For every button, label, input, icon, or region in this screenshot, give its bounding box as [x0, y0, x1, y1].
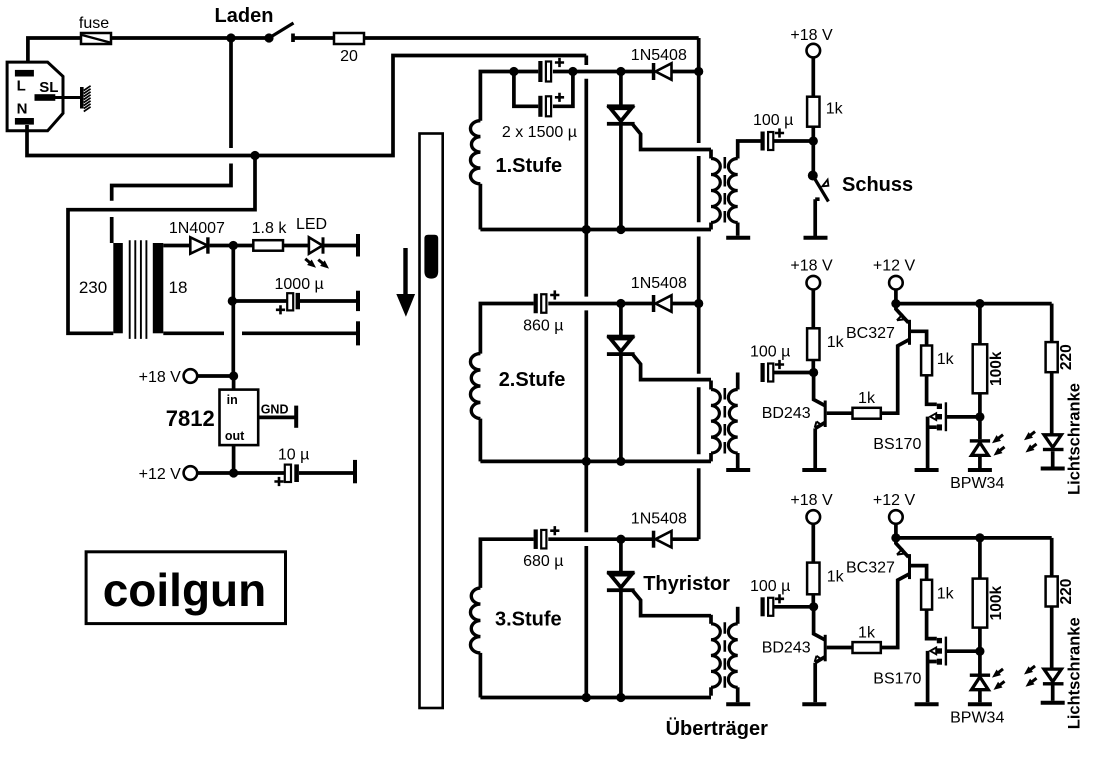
wire stage3 bottom rail [480, 696, 711, 700]
svg-text:Lichtschranke: Lichtschranke [1066, 383, 1084, 495]
wire secondary top to diode [163, 244, 191, 248]
wire 1000u node down to +18V node [231, 301, 235, 376]
wire +12V terminal to node [197, 471, 234, 475]
svg-text:+12 V: +12 V [873, 492, 916, 509]
ground BD243 stage2 [802, 468, 826, 472]
label 1k schuss [826, 101, 844, 118]
transformer TR2 primary [711, 381, 720, 462]
wire stage1 thyristor anode [619, 72, 623, 105]
capacitor C 860u stage2 [534, 294, 547, 314]
label 1N5408 stage2 [631, 275, 687, 292]
plus sign C3b [555, 93, 564, 102]
label 10 u [278, 447, 309, 464]
transformer T1 core [130, 240, 147, 339]
label BC327 stage3 [846, 559, 895, 576]
ground stage2 transformer [726, 468, 750, 472]
svg-text:BC327: BC327 [846, 325, 895, 342]
svg-text:N: N [17, 100, 28, 117]
terminal bar secondary bottom [356, 321, 360, 345]
wire node down to 1000u row [231, 246, 235, 302]
label Thyristor [643, 573, 730, 595]
wire stage1 diode to bus [672, 70, 699, 74]
label +12 V stage3 [873, 492, 916, 509]
svg-text:Lichtschranke: Lichtschranke [1066, 617, 1084, 729]
wire fuse to Laden switch [111, 36, 269, 40]
svg-text:100 µ: 100 µ [750, 578, 790, 595]
wire stage2 thyristor anode [619, 304, 623, 339]
svg-text:BC327: BC327 [846, 559, 895, 576]
label 100u stage3 [750, 578, 790, 595]
plus sign 100u stage3 [775, 594, 784, 603]
terminal bar LED row [356, 234, 360, 257]
label BPW34 stage2 [950, 475, 1004, 492]
ground stage3 transformer [726, 702, 750, 706]
label BC327 stage2 [846, 325, 895, 342]
capacitor 100u stage2 [761, 363, 774, 382]
wire stage3 thyristor cathode [619, 590, 623, 697]
label 100u stage2 [750, 344, 790, 361]
transformer TR1 primary [711, 150, 720, 230]
label Lichtschranke stage2 [1066, 383, 1084, 495]
svg-text:2 x 1500 µ: 2 x 1500 µ [502, 124, 577, 141]
wire stage2 bottom rail [480, 460, 711, 464]
wire node to resistor 1.8k [233, 244, 253, 248]
label 1000 u [275, 276, 324, 293]
terminal +12V stage3 [889, 510, 903, 524]
wire rail to 100k stage2 [978, 304, 982, 345]
label 20 [340, 48, 358, 65]
resistor 1k base stage2 [853, 408, 881, 419]
node stage1 thyristor top [616, 67, 625, 76]
label 2.Stufe [499, 369, 566, 391]
svg-text:1k: 1k [858, 390, 876, 407]
coilgun title box [86, 552, 285, 624]
motion arrow [396, 248, 415, 317]
label Ubertrager [666, 717, 768, 740]
wire base to 1k stage2 [827, 411, 853, 415]
ground stage1 transformer [726, 236, 750, 240]
label 1k BC327 stage3 [937, 585, 955, 602]
svg-text:1N4007: 1N4007 [169, 220, 225, 237]
wire node to capacitor 10u [234, 471, 285, 475]
transformer TR2 core [723, 388, 726, 455]
wire node to switch [811, 141, 815, 172]
resistor 20 [334, 33, 364, 44]
svg-text:100k: 100k [988, 351, 1005, 386]
svg-text:230: 230 [79, 278, 107, 297]
wire stage2 rail cap to diode [548, 302, 652, 306]
svg-text:BD243: BD243 [762, 405, 811, 422]
wire stage1 thyristor cathode [619, 124, 623, 230]
label N [17, 100, 28, 117]
terminal bar 10u row [353, 460, 357, 483]
node gate divider stage3 [975, 647, 984, 656]
label +18 V schuss [790, 27, 833, 44]
transformer TR1 core [723, 157, 726, 224]
node +12V rail stage3 [891, 533, 900, 542]
transistor BC327 stage2 [896, 304, 927, 346]
label BPW34 stage3 [950, 709, 1004, 726]
wire base to 1k stage3 [827, 646, 853, 650]
wire secondary bottom to terminal [163, 331, 357, 335]
svg-text:100k: 100k [988, 585, 1005, 620]
label +12 V left [139, 466, 182, 483]
resistor 1k BC327 stage2 [921, 346, 932, 376]
ground BD243 stage3 [802, 702, 826, 706]
terminal bar 1000u row [356, 291, 360, 311]
label 1k collector stage3 [827, 568, 845, 585]
label 100u stage1 [753, 112, 793, 129]
label 18 [169, 278, 188, 297]
wire 100k to gate node stage3 [978, 628, 982, 652]
label 220 stage2 [1058, 344, 1075, 370]
ground BS170 stage3 [915, 702, 939, 706]
label 3.Stufe [495, 609, 562, 631]
light arrows LED stage2 [1022, 429, 1039, 456]
capacitor C3b 1500u [538, 96, 551, 117]
wire Laden node to transformer primary top [112, 38, 231, 243]
wire stage1 loop left bottom [479, 184, 483, 230]
wire stage2 loop left top [480, 304, 533, 354]
svg-text:+18 V: +18 V [790, 27, 833, 44]
node stage2 bottom negbus [582, 457, 591, 466]
wire mains N from plug [27, 56, 586, 156]
mains plug outline [7, 62, 63, 131]
label fuse [79, 15, 109, 32]
LED D2 emission arrows [303, 256, 331, 271]
wire stage2 thyristor cathode [619, 354, 623, 461]
wire resistor 20 to charge bus [364, 36, 699, 40]
wire stage2 diode to bus [672, 302, 699, 306]
svg-text:10 µ: 10 µ [278, 447, 309, 464]
node mains junction at Laden [226, 33, 235, 42]
wire stage3 diode to bus [672, 537, 699, 541]
node stage2 thyristor top [616, 299, 625, 308]
label 1.8 k [252, 220, 288, 237]
ground BS170 stage2 [915, 468, 939, 472]
regulator U1 7812 box [220, 390, 259, 446]
label LED [296, 216, 327, 233]
wire +18V to R1k stage3 [811, 524, 815, 563]
svg-text:fuse: fuse [79, 15, 109, 32]
node stage1 bus [694, 67, 703, 76]
wire +12V rail stage3 [896, 536, 1052, 540]
plug pin L [15, 70, 34, 77]
wire terminal to R 1k schuss [811, 57, 815, 97]
svg-text:3.Stufe: 3.Stufe [495, 609, 562, 631]
svg-text:SL: SL [39, 79, 58, 96]
label 230 [79, 278, 107, 297]
earth symbol [80, 86, 91, 112]
label 1k base stage3 [858, 624, 876, 641]
label 680 stage3 [523, 553, 563, 570]
resistor 100k stage2 [973, 344, 988, 393]
label 1N5408 stage1 [631, 47, 687, 64]
svg-text:1N5408: 1N5408 [631, 47, 687, 64]
diode 1N5408 stage3 [652, 531, 672, 548]
plus sign C1 [276, 305, 285, 314]
thyristor stage2 [607, 335, 635, 356]
wire capacitor 10u to terminal [299, 471, 355, 475]
transformer TR3 primary [711, 615, 720, 696]
label L [17, 78, 26, 95]
node stage2 bus [694, 299, 703, 308]
wire mains L from plug to fuse [28, 38, 81, 70]
wire diode to node [210, 244, 234, 248]
resistor 1k BC327 stage3 [921, 580, 932, 610]
label 1.Stufe [496, 155, 563, 177]
wire stage3 gate to pulse transformer [632, 590, 711, 616]
switch S2 Schuss [808, 171, 829, 237]
label 1k BC327 stage2 [937, 351, 955, 368]
wire 1.8k to LED [283, 244, 310, 248]
wire stage1 second cap branch [514, 72, 538, 107]
light arrows LED stage3 [1022, 663, 1039, 690]
svg-text:BPW34: BPW34 [950, 475, 1004, 492]
label BS170 stage3 [873, 670, 921, 687]
node stage1 bottom thyristor [616, 225, 625, 234]
svg-text:in: in [227, 393, 238, 407]
svg-text:+18 V: +18 V [790, 492, 833, 509]
LED lichtschranke stage2 [1043, 435, 1064, 467]
node 100k rail stage2 [975, 299, 984, 308]
thyristor stage3 [607, 571, 635, 592]
wire stage1 loop left top [480, 72, 538, 121]
diode 1N5408 stage2 [652, 295, 672, 312]
node stage3 bottom negbus [582, 693, 591, 702]
coil L1 stage1 [470, 121, 480, 184]
svg-text:220: 220 [1058, 579, 1075, 605]
svg-text:1.8 k: 1.8 k [252, 220, 288, 237]
plus sign cap stage3 [550, 526, 559, 535]
wire 220 to LED stage2 [1050, 372, 1054, 434]
wire 220 to LED stage3 [1050, 607, 1054, 669]
photodiode BPW34 stage2 [970, 417, 990, 468]
svg-text:1.Stufe: 1.Stufe [496, 155, 563, 177]
node regulator input [229, 371, 238, 380]
plus sign C2 [274, 477, 283, 486]
svg-text:1k: 1k [937, 585, 955, 602]
LED lichtschranke stage3 [1043, 669, 1064, 701]
label +18 V left [139, 369, 182, 386]
transistor BS170 stage3 [927, 610, 948, 703]
wire node to regulator [232, 376, 236, 390]
svg-text:Laden: Laden [215, 5, 274, 27]
node 100u stage3 [809, 602, 818, 611]
resistor R1 1k schuss [807, 97, 819, 127]
resistor 220 stage3 [1046, 576, 1058, 606]
wire stage2 gate to pulse transformer [632, 354, 711, 380]
label +12 V stage2 [873, 258, 916, 275]
wire charge bus x697 [697, 38, 701, 539]
label BD243 stage3 [762, 639, 811, 656]
label 1N4007 [169, 220, 225, 237]
wire R1 to node [811, 127, 815, 141]
transformer T1 secondary winding bar [153, 243, 164, 333]
wire node to capacitor 1000u [232, 299, 287, 303]
svg-text:18: 18 [169, 278, 188, 297]
capacitor 100u stage3 [761, 597, 774, 616]
transformer TR1 secondary [728, 141, 760, 236]
label 1N5408 stage3 [631, 511, 687, 528]
svg-text:860 µ: 860 µ [523, 318, 563, 335]
resistor 1k base stage3 [853, 642, 881, 653]
node N junction [250, 151, 259, 160]
capacitor C 680u stage3 [534, 529, 547, 549]
svg-text:1k: 1k [826, 101, 844, 118]
svg-text:1k: 1k [937, 351, 955, 368]
resistor 1k collector stage3 [807, 563, 819, 595]
diode D1 1N4007 [190, 237, 209, 253]
capacitor C3a 1500u [538, 61, 551, 82]
svg-text:BPW34: BPW34 [950, 709, 1004, 726]
fuse F1 [81, 33, 111, 44]
node stage1 cap branch A [509, 67, 518, 76]
node rectifier output [229, 241, 238, 250]
node gate divider stage2 [975, 412, 984, 421]
svg-text:GND: GND [261, 403, 289, 417]
svg-text:2.Stufe: 2.Stufe [499, 369, 566, 391]
barrel tube [420, 134, 443, 709]
wire stage1 rail caps to diode [553, 70, 653, 74]
ground LED stage2 [1041, 467, 1065, 471]
wire 100k to gate node stage2 [978, 393, 982, 417]
coil L3 stage3 [470, 588, 480, 653]
wire switch to resistor 20 [293, 36, 334, 40]
svg-text:1k: 1k [827, 334, 845, 351]
wire negative bus x586 [584, 56, 588, 698]
wire stage3 thyristor anode [619, 539, 623, 574]
node +12V rail stage2 [891, 299, 900, 308]
ground BPW34 stage2 [968, 468, 992, 472]
wire stage1 bottom rail [480, 228, 711, 232]
svg-text:220: 220 [1058, 344, 1075, 370]
wire LED to terminal [325, 244, 358, 248]
capacitor C2 10u [285, 464, 299, 482]
svg-text:+18 V: +18 V [790, 258, 833, 275]
plus sign C4 [775, 128, 784, 137]
terminal +12V stage2 [889, 276, 903, 290]
node stage1 cap branch B [568, 67, 577, 76]
label +18 V stage2 [790, 258, 833, 275]
node stage3 bottom thyristor [616, 693, 625, 702]
svg-text:680 µ: 680 µ [523, 553, 563, 570]
wire +12V terminal to rail stage3 [894, 524, 898, 538]
label 7812 [166, 406, 215, 431]
resistor 1.8k [253, 240, 283, 251]
resistor 1k collector stage2 [807, 328, 819, 360]
label 220 stage3 [1058, 579, 1075, 605]
terminal +12V left [184, 466, 198, 480]
svg-text:1k: 1k [827, 568, 845, 585]
wire stage2 loop left bottom [479, 419, 483, 462]
capacitor C1 1000u [287, 293, 300, 311]
svg-text:7812: 7812 [166, 406, 215, 431]
node 100u stage2 [809, 368, 818, 377]
label out [225, 429, 245, 443]
svg-text:+12 V: +12 V [139, 466, 182, 483]
label 1k base stage2 [858, 390, 876, 407]
label BS170 stage2 [873, 436, 921, 453]
svg-text:Thyristor: Thyristor [643, 573, 730, 595]
label Schuss [842, 174, 913, 196]
wire SL to earth [55, 96, 81, 99]
wire rail to 220 stage2 [1050, 304, 1054, 343]
wire C4 to schuss node [774, 139, 813, 143]
light arrows BPW34 stage2 [990, 432, 1007, 459]
label GND [261, 403, 289, 417]
wire 1k to BC327 collector stage2 [881, 340, 909, 413]
transformer T1 primary winding bar [113, 243, 123, 333]
coil L2 stage2 [470, 354, 480, 419]
wire 100u to node stage3 [774, 605, 814, 609]
plus sign 100u stage2 [775, 360, 784, 369]
transistor BS170 stage2 [927, 375, 948, 468]
label 2 x 1500u [502, 124, 577, 141]
label in [227, 393, 238, 407]
resistor 220 stage2 [1046, 342, 1058, 372]
terminal +18V left [184, 369, 198, 383]
label coilgun [103, 564, 267, 616]
ground BPW34 stage3 [968, 702, 992, 706]
transistor BC327 stage3 [896, 538, 927, 580]
wire stage3 loop left bottom [479, 653, 483, 698]
transformer TR3 core [723, 622, 726, 689]
wire R1k to node stage3 [811, 594, 815, 607]
svg-text:BS170: BS170 [873, 670, 921, 687]
svg-text:Überträger: Überträger [666, 717, 768, 740]
label SL [39, 79, 58, 96]
wire +12V terminal to rail stage2 [894, 289, 898, 303]
svg-text:+18 V: +18 V [139, 369, 182, 386]
wire N node to transformer primary bottom [68, 156, 255, 334]
wire gate to divider stage2 [947, 415, 980, 419]
svg-text:100 µ: 100 µ [750, 344, 790, 361]
ground LED stage3 [1041, 701, 1065, 705]
wire stage3 rail cap to diode [548, 537, 652, 541]
transformer TR2 secondary [728, 373, 737, 469]
wire stage1 second cap return [553, 72, 573, 107]
wire gate to divider stage3 [947, 649, 980, 653]
label 100k stage3 [988, 585, 1005, 620]
svg-text:+12 V: +12 V [873, 258, 916, 275]
diode D3 1N5408 [652, 63, 672, 80]
terminal bar GND [294, 406, 298, 428]
plus sign C3a [555, 58, 564, 67]
wire GND pin [258, 416, 295, 420]
wire +18V to R1k stage2 [811, 289, 815, 328]
wire R1k to node stage2 [811, 360, 815, 373]
label +18 V stage3 [790, 492, 833, 509]
wire +18V terminal to node [197, 374, 234, 378]
wire 100u to node stage2 [774, 371, 814, 375]
label 1k collector stage2 [827, 334, 845, 351]
svg-text:Schuss: Schuss [842, 174, 913, 196]
label Lichtschranke stage3 [1066, 617, 1084, 729]
node 100k rail stage3 [975, 533, 984, 542]
wire stage3 loop left top [480, 539, 533, 588]
resistor 100k stage3 [973, 579, 988, 628]
terminal +18V stage2 [807, 276, 821, 290]
label BD243 stage2 [762, 405, 811, 422]
label 100k stage2 [988, 351, 1005, 386]
transformer TR3 secondary [728, 607, 737, 703]
wire out pin to +12V node [232, 445, 236, 473]
svg-text:out: out [225, 429, 245, 443]
wire capacitor 1000u to terminal [300, 299, 358, 303]
svg-text:1000 µ: 1000 µ [275, 276, 324, 293]
ground schuss [804, 236, 828, 240]
